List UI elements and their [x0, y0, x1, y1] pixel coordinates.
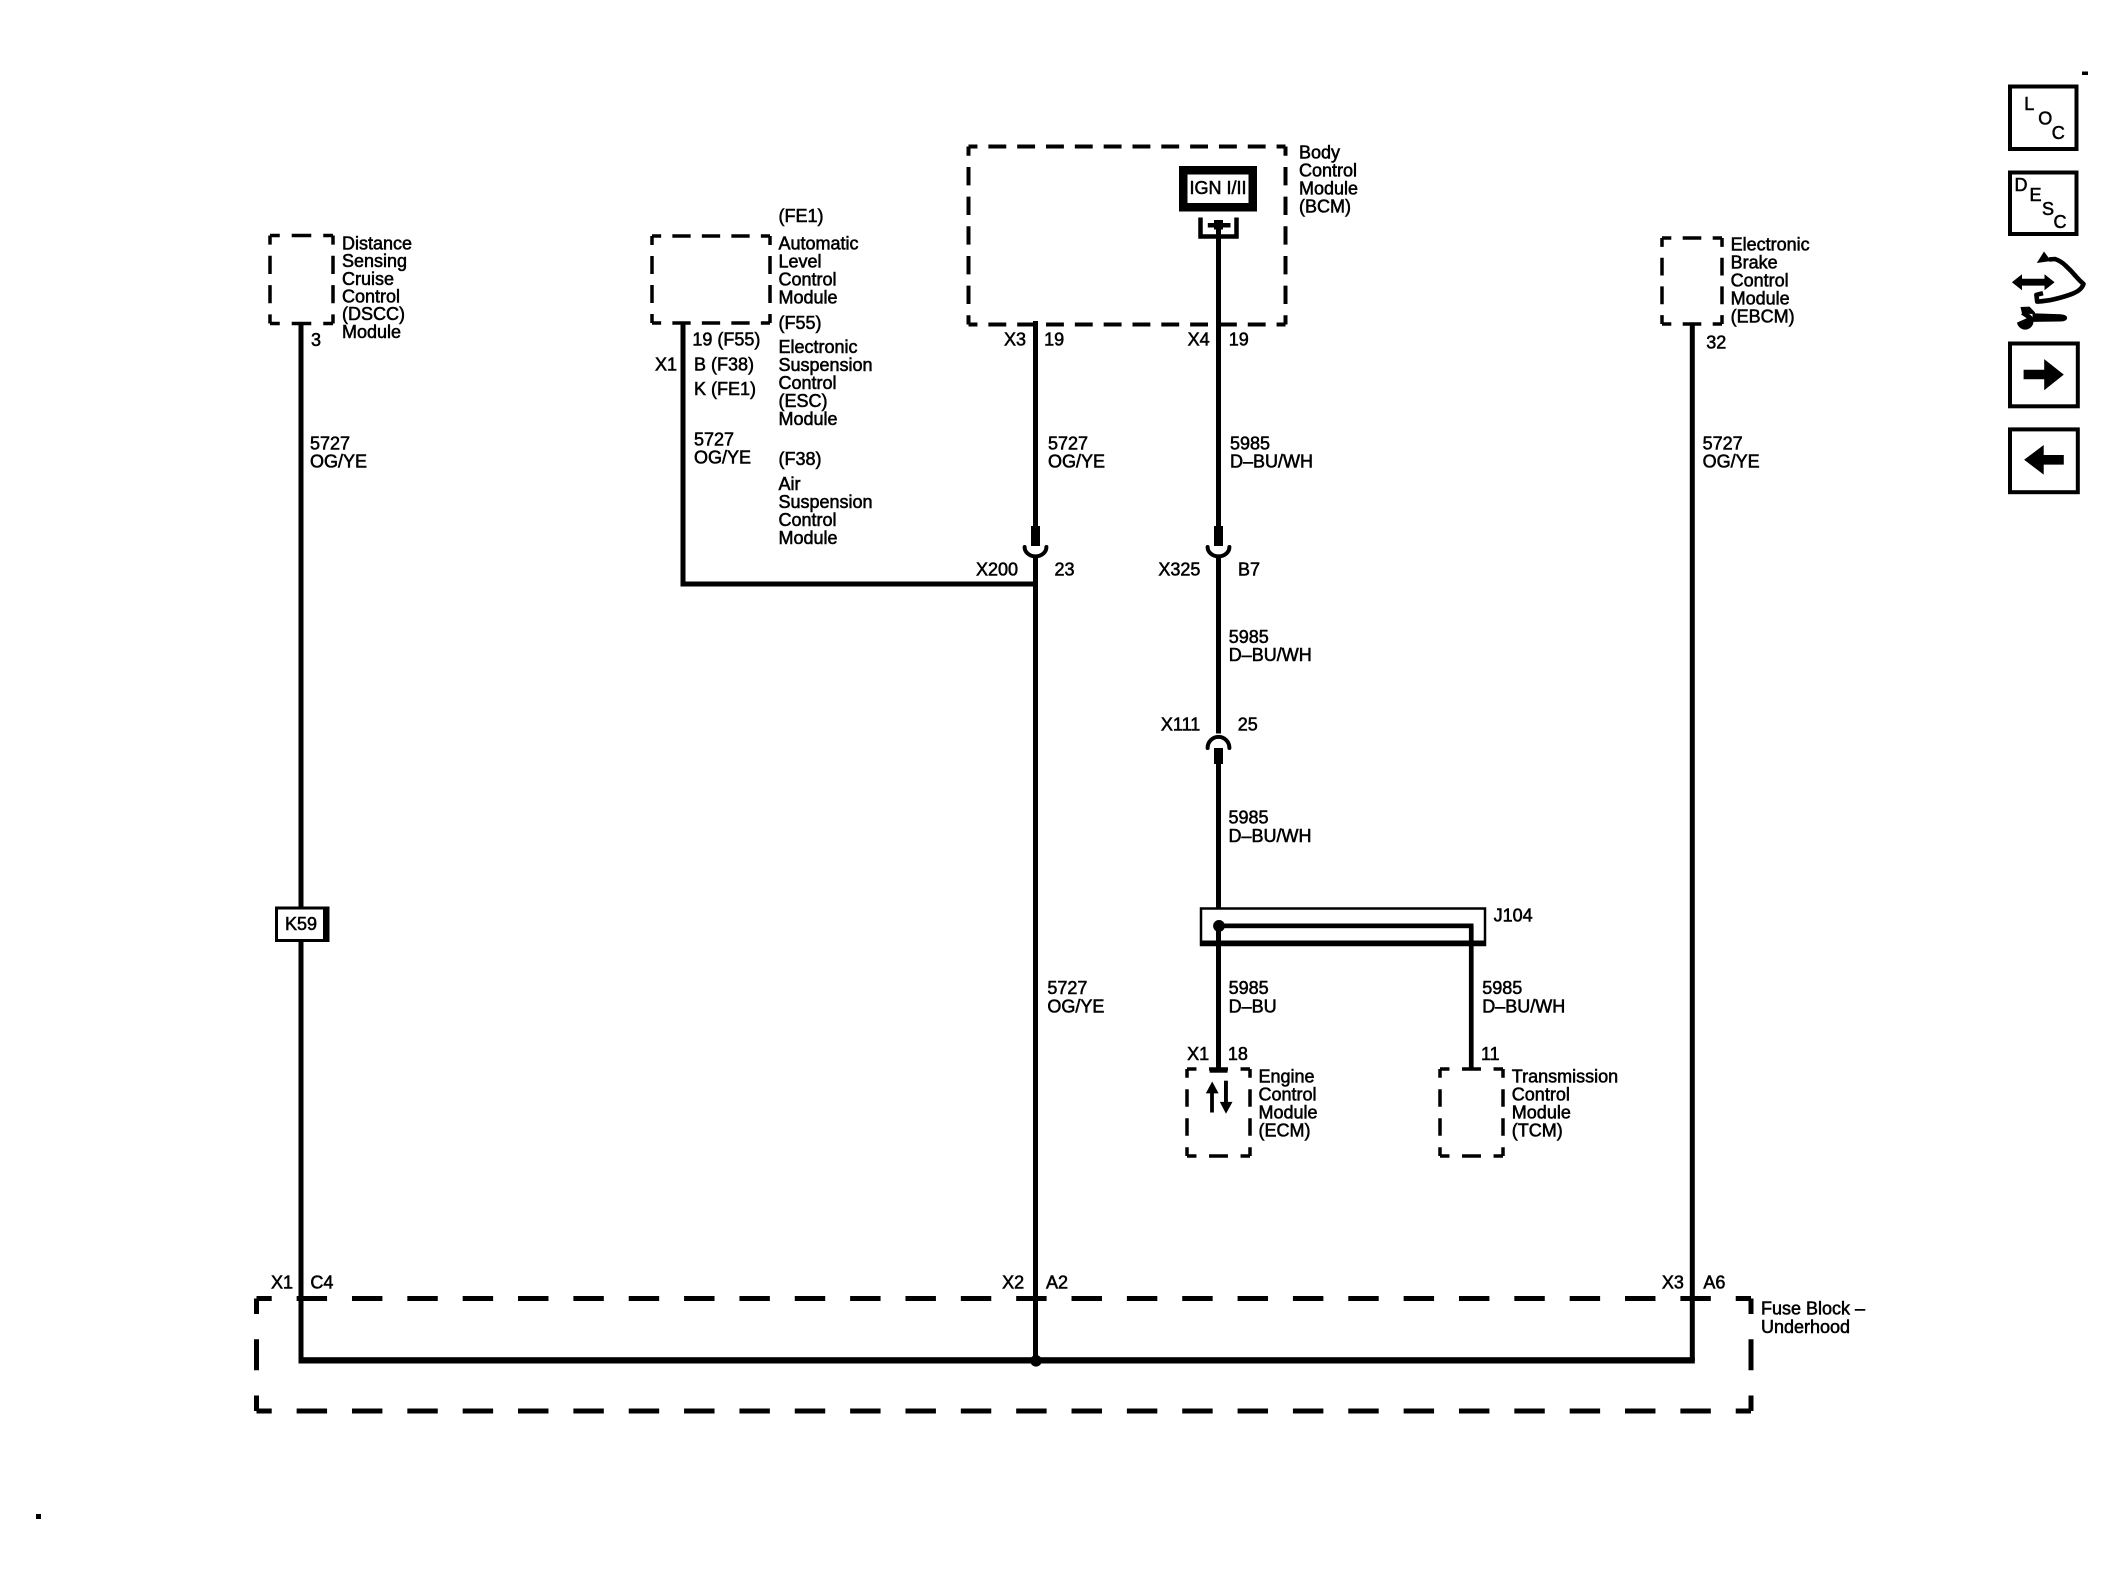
switch IGN I/II	[1179, 166, 1257, 212]
speck top right	[2082, 72, 2088, 76]
module DSCC box	[270, 236, 333, 324]
ECM terminal dash at wire entry	[1210, 1068, 1228, 1072]
svg-text:19: 19	[1229, 330, 1249, 350]
ECM down arrow	[1220, 1081, 1233, 1114]
wire BCM X4 leg segment 1	[1216, 223, 1221, 546]
relay K59	[277, 908, 329, 941]
svg-text:Fuse Block –Underhood: Fuse Block –Underhood	[1761, 1298, 1865, 1337]
svg-text:S: S	[2042, 199, 2054, 219]
wire BCM X3 leg lower segment	[1033, 558, 1038, 1361]
wire ALC leg vertical	[681, 323, 686, 584]
male terminal blob X111	[1214, 748, 1223, 764]
male terminal blob X200	[1031, 526, 1040, 546]
svg-text:X111: X111	[1161, 715, 1200, 735]
splice pack J104	[1201, 909, 1485, 946]
svg-text:C: C	[2054, 212, 2067, 232]
wire BCM X3 leg upper segment	[1033, 321, 1038, 526]
fuse block box	[257, 1299, 1752, 1412]
svg-text:A6: A6	[1703, 1272, 1725, 1292]
svg-text:32: 32	[1706, 333, 1726, 353]
wire J104 to ECM (continues X4 leg, drawn above)	[1216, 928, 1221, 1069]
module BCM box	[969, 147, 1286, 325]
svg-text:19 (F55): 19 (F55)	[692, 330, 760, 350]
module ALC box	[652, 236, 770, 323]
wire EBCM leg 5727 OG/YE	[1690, 324, 1695, 1361]
svg-text:B (F38): B (F38)	[694, 354, 754, 374]
svg-text:L: L	[2024, 94, 2034, 114]
svg-text:25: 25	[1238, 715, 1258, 735]
svg-text:(F38): (F38)	[779, 449, 822, 469]
svg-text:X1: X1	[1187, 1044, 1209, 1064]
svg-text:X325: X325	[1158, 560, 1200, 580]
svg-text:O: O	[2038, 109, 2052, 129]
module TCM box	[1440, 1069, 1503, 1156]
icon box left arrow	[2010, 429, 2078, 492]
svg-text:X1: X1	[271, 1272, 293, 1292]
inline connector X111 dome	[1208, 737, 1230, 748]
svg-text:(F55): (F55)	[779, 313, 822, 333]
svg-text:C4: C4	[310, 1272, 333, 1292]
svg-text:C: C	[2052, 123, 2065, 143]
inline connector X200 cup	[1025, 547, 1047, 556]
svg-text:X3: X3	[1662, 1272, 1684, 1292]
svg-text:X3: X3	[1004, 330, 1026, 350]
svg-text:EngineControlModule(ECM): EngineControlModule(ECM)	[1259, 1066, 1318, 1140]
svg-text:3: 3	[311, 330, 321, 350]
svg-text:19: 19	[1044, 330, 1064, 350]
svg-text:A2: A2	[1046, 1272, 1068, 1292]
wire DSCC leg 5727 OG/YE	[299, 324, 304, 1362]
svg-text:23: 23	[1055, 560, 1075, 580]
svg-text:11: 11	[1481, 1044, 1500, 1064]
svg-text:(FE1): (FE1)	[779, 206, 824, 226]
icon box DESC	[2010, 173, 2077, 235]
module EBCM box	[1662, 238, 1722, 324]
svg-text:X1: X1	[655, 354, 677, 374]
svg-text:B7: B7	[1238, 560, 1260, 580]
module ECM box	[1187, 1069, 1250, 1156]
wire BCM X4 leg segment 3	[1216, 756, 1221, 1069]
svg-text:K (FE1): K (FE1)	[694, 379, 756, 399]
wire J104 to TCM branch	[1469, 926, 1474, 1069]
wire J104 internal bus	[1216, 924, 1474, 929]
junction dot bus X2	[1030, 1355, 1042, 1367]
wire BCM X4 leg segment 2	[1216, 558, 1221, 734]
svg-text:J104: J104	[1494, 905, 1533, 925]
junction dot J104	[1213, 920, 1225, 932]
svg-text:18: 18	[1228, 1044, 1248, 1064]
svg-text:X2: X2	[1002, 1272, 1024, 1292]
connector symbol below IGN I/II	[1201, 218, 1237, 237]
icon box LOC	[2010, 87, 2077, 150]
inline connector X325 cup	[1208, 547, 1230, 556]
svg-text:E: E	[2030, 185, 2042, 205]
svg-text:D: D	[2015, 175, 2028, 195]
wire ALC leg horizontal to X200 junction	[681, 582, 1039, 587]
male terminal blob X325	[1214, 526, 1223, 546]
svg-text:K59: K59	[285, 914, 317, 934]
svg-text:X4: X4	[1188, 330, 1210, 350]
wire fuse block internal bus	[299, 1357, 1695, 1363]
svg-text:IGN I/II: IGN I/II	[1190, 178, 1247, 198]
ECM up arrow	[1206, 1082, 1219, 1113]
icon wrench with arrows	[2011, 252, 2084, 330]
speck bottom left	[36, 1514, 41, 1519]
svg-text:X200: X200	[976, 560, 1018, 580]
icon box right arrow	[2010, 344, 2078, 407]
